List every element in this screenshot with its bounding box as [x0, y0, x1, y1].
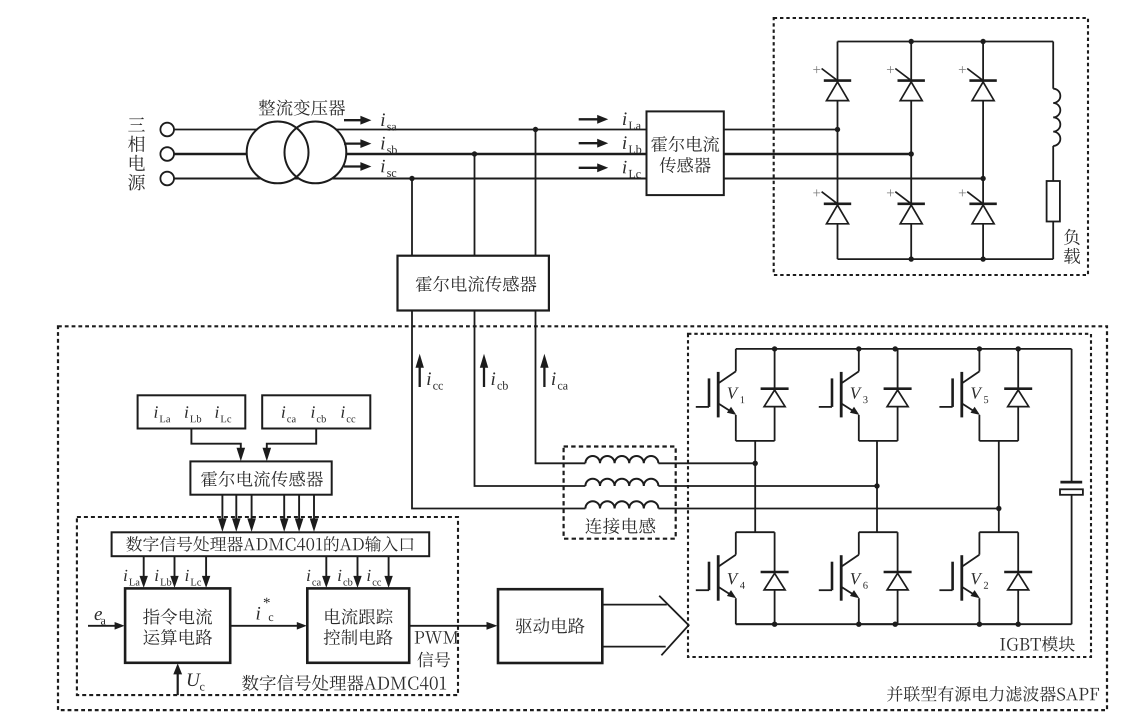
node top dc bus junction [772, 346, 777, 351]
IGBT V4 with antiparallel diode [696, 532, 789, 624]
inductor connection L2 [585, 479, 658, 486]
node bottom dc bus junction [1016, 622, 1021, 627]
thyristor VT6 (bottom row, phase b) [887, 189, 925, 223]
input e_a [88, 611, 125, 630]
wire capacitor bottom [1071, 495, 1073, 624]
node bottom dc bus junction [977, 622, 982, 627]
label rectifier transformer 整流变压器 [259, 99, 346, 115]
label connection inductor 连接电感 [585, 518, 655, 534]
hall current sensor box (source side) [398, 256, 549, 311]
node top dc bus junction [856, 346, 861, 351]
node phase-a to bridge [835, 127, 840, 132]
current arrow i_Lb [579, 136, 642, 153]
dotted box IGBT module [688, 334, 1091, 657]
wire AD port to command circuit i_La [124, 556, 148, 588]
wire ic box to hall sensor [263, 429, 317, 462]
node bottom bus junction leg b [909, 256, 914, 261]
wire load branch top [1052, 42, 1054, 89]
label IGBT module IGBT模块 [1000, 636, 1075, 652]
wire AD port to tracking circuit i_cb [338, 556, 362, 588]
wire i_cb branch vertical+row2 [475, 311, 878, 487]
wire hall sensor to AD port [280, 495, 289, 532]
terminal phase-a of three-phase source [160, 123, 174, 137]
node phase-b to bridge [909, 151, 914, 156]
wire hall sensor to AD port [247, 495, 256, 532]
wire inverter bottom dc bus [736, 623, 1072, 625]
current arrow i_cb [480, 354, 508, 390]
wire i_cc branch vertical+row3 [412, 311, 999, 509]
node bottom dc bus junction [772, 622, 777, 627]
label 并联型有源电力滤波器SAPF [887, 686, 1099, 702]
node junction phase-a tap [533, 127, 538, 132]
IGBT V6 with antiparallel diode [819, 532, 912, 624]
node junction phase-b tap [472, 151, 477, 156]
current arrow i_sc [344, 160, 396, 177]
drive bus chevron arrow [659, 596, 689, 656]
current arrow i_ca [540, 354, 568, 390]
wire phase-b from source to rectifier bridge [174, 153, 912, 155]
wire AD port to tracking circuit i_ca [307, 556, 330, 588]
wire PWM to drive circuit [409, 622, 497, 630]
command current calculation box 指令电流运算电路 [125, 588, 230, 662]
wire hall sensor to AD port [310, 495, 319, 532]
node top bus junction leg b [909, 39, 914, 44]
dotted box rectifier load [774, 18, 1088, 275]
wire phase-b drop to hall sensor [474, 154, 476, 256]
node top dc bus junction [977, 346, 982, 351]
wire top dc bus of bridge [838, 41, 1054, 43]
AD input port box [112, 532, 430, 556]
node top dc bus junction [1016, 346, 1021, 351]
resistor load R [1047, 181, 1060, 222]
thyristor VT5 (top row, phase c) [959, 66, 997, 100]
inductor connection L1 [585, 456, 658, 463]
thyristor VT2 (bottom row, phase c) [959, 189, 997, 223]
IGBT V2 with antiparallel diode [939, 532, 1032, 624]
wire leg2 phase stub [876, 441, 878, 532]
inductor load L [1053, 89, 1060, 146]
wire bridge leg column [837, 42, 839, 260]
dotted box DSP ADMC401 [77, 517, 458, 695]
thyristor VT3 (top row, phase b) [887, 66, 925, 100]
dotted box SAPF [58, 326, 1107, 710]
node bottom bus junction leg c [980, 256, 985, 261]
inductor connection L3 [585, 501, 658, 508]
current arrow i_cc [416, 354, 443, 390]
wire bridge leg column [910, 42, 912, 260]
wire drive output lower [602, 646, 665, 648]
capacitor C dc-link [1060, 482, 1083, 495]
wire hall sensor to AD port [218, 495, 227, 532]
signal box iL (i_La i_Lb i_Lc) [138, 395, 246, 428]
transformer T1 secondary winding circle [285, 121, 347, 183]
thyristor VT4 (bottom row, phase a) [813, 189, 851, 223]
current arrow i_sa [344, 113, 396, 130]
wire phase-c from source to rectifier bridge [174, 178, 984, 180]
current arrow i_sb [344, 137, 397, 154]
terminal phase-c of three-phase source [160, 172, 174, 186]
wire load branch bottom [1052, 222, 1054, 260]
label PWM信号 [415, 631, 459, 667]
node leg1 phase connection [753, 461, 758, 466]
thyristor VT1 (top row, phase a) [813, 66, 851, 100]
wire phase-a from source to rectifier bridge [174, 129, 838, 131]
label 数字信号处理器ADMC401 [242, 675, 446, 691]
IGBT V1 with antiparallel diode [696, 349, 789, 441]
hall current sensor box (control) [190, 461, 331, 494]
transformer T1 primary winding circle [247, 121, 347, 183]
wire hall sensor to AD port [295, 495, 304, 532]
signal box ic (i_ca i_cb i_cc) [262, 395, 370, 428]
wire AD port to command circuit i_Lc [186, 556, 211, 588]
wire phase-a drop to hall sensor [535, 130, 537, 256]
wire inverter top dc bus [736, 348, 1072, 350]
wire leg1 phase stub [754, 441, 756, 532]
IGBT V5 with antiparallel diode [939, 349, 1032, 441]
hall current sensor box (load side) [647, 111, 724, 195]
wire drive output upper [602, 604, 667, 606]
input U_c [173, 663, 204, 695]
current tracking control box 电流跟踪控制电路 [307, 588, 409, 662]
terminal phase-b of three-phase source [160, 147, 174, 161]
node phase-c to bridge [980, 176, 985, 181]
wire capacitor top [1071, 349, 1073, 481]
wire AD port to tracking circuit i_cc [367, 556, 392, 588]
wire load branch middle [1052, 146, 1054, 181]
wire bottom dc bus of bridge [838, 258, 1054, 260]
wire AD port to command circuit i_Lb [155, 556, 178, 588]
node top bus junction leg c [980, 39, 985, 44]
node leg2 phase connection [874, 483, 879, 488]
label load 负载 [1064, 229, 1080, 264]
node bottom dc bus junction [893, 622, 898, 627]
wire iL box to hall sensor [191, 429, 245, 462]
node junction phase-c tap [409, 176, 414, 181]
node leg3 phase connection [996, 506, 1001, 511]
node bottom dc bus junction [856, 622, 861, 627]
wire leg3 phase stub [998, 441, 1000, 532]
wire bridge leg column [982, 42, 984, 260]
IGBT V3 with antiparallel diode [819, 349, 912, 441]
dotted box connection inductors [564, 447, 676, 539]
current arrow i_La [579, 112, 641, 129]
signal i*_c [230, 598, 307, 630]
drive circuit box 驱动电路 [498, 589, 602, 663]
wire hall sensor to AD port [232, 495, 241, 532]
wire i_ca branch vertical+row1 [536, 311, 756, 464]
node top dc bus junction [893, 346, 898, 351]
wire phase-c drop to hall sensor [411, 179, 413, 256]
current arrow i_Lc [579, 161, 641, 178]
label three-phase source 三相电源 [128, 117, 145, 190]
